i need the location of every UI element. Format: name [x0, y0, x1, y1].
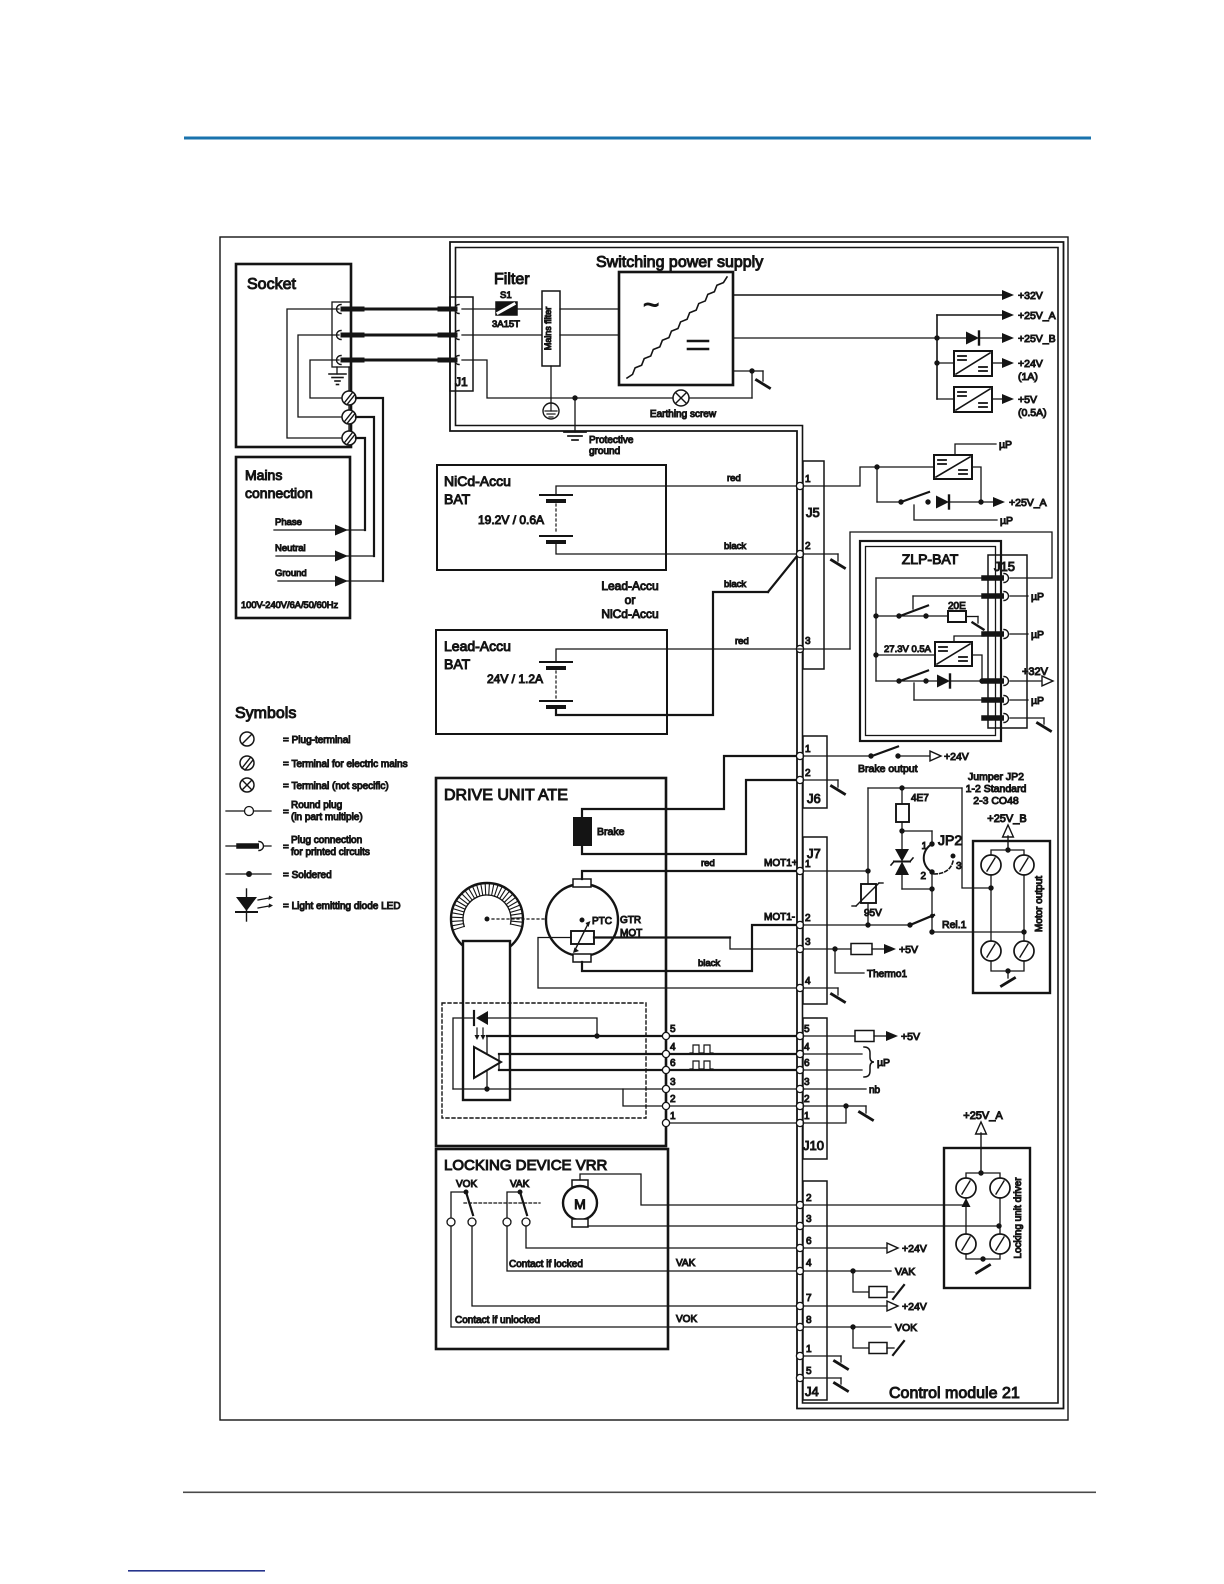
svg-text:1: 1	[805, 859, 811, 870]
J5 pin 1	[796, 482, 803, 489]
mains filter block	[542, 291, 560, 366]
20E chassis tick	[966, 617, 984, 630]
J15 pin3	[984, 630, 1009, 639]
wire terminal2 to neutral arrow	[356, 417, 374, 556]
locking driver terminal top-right	[990, 1178, 1010, 1198]
J4 pin4 VAK sense	[803, 1266, 915, 1278]
wire terminal3 to phase arrow	[356, 438, 365, 530]
svg-text:red: red	[735, 636, 749, 647]
svg-text:red: red	[701, 858, 715, 869]
wire contact if unlocked VOK to J4 pin8	[451, 1226, 797, 1327]
motor output terminal bottom-right	[1014, 941, 1034, 961]
photo amplifier	[474, 1047, 501, 1078]
label control module 21	[889, 1385, 1020, 1402]
LED emitter	[474, 1011, 488, 1040]
legend plug-terminal	[240, 732, 351, 746]
svg-text:6: 6	[670, 1058, 676, 1069]
wire J4 pin2 to locking driver	[803, 1198, 971, 1207]
svg-text:Contact if locked: Contact if locked	[509, 1259, 583, 1270]
wire drive row6 to J10 with pulses	[670, 1061, 797, 1070]
svg-text:VAK: VAK	[676, 1258, 696, 1269]
wire J5 pin1 to DC/DC	[803, 464, 934, 486]
wire locking motor to J4 pin3	[588, 1225, 797, 1227]
wire JP2 pin2 down to relay	[930, 872, 934, 932]
connector J5	[803, 461, 824, 669]
svg-text:(in part multiple): (in part multiple)	[291, 812, 363, 823]
locking driver bottom bracket with tick	[966, 1254, 1000, 1273]
varistor 95V	[852, 788, 883, 925]
svg-text:for printed circuits: for printed circuits	[291, 847, 370, 858]
svg-text:NiCd-Accu: NiCd-Accu	[601, 607, 658, 621]
J10 pin1 to pin2 tie	[803, 1106, 846, 1123]
wire row4 sensor	[499, 1054, 663, 1070]
wire socket row1 to mains terminal 3	[287, 309, 341, 438]
svg-text:2: 2	[806, 1193, 812, 1204]
connector J1	[440, 297, 473, 391]
output +25V_B with diode	[733, 332, 1056, 346]
svg-text:4: 4	[806, 1258, 812, 1269]
svg-text:3A15T: 3A15T	[492, 319, 520, 330]
J6 pin2 chassis tick	[803, 780, 845, 794]
svg-text:MOT1-: MOT1-	[764, 912, 795, 923]
wire DC/DC out to +25V_A node	[972, 467, 981, 502]
wire row6 sensor	[499, 1069, 663, 1071]
wire drive row4 to J10 with pulses	[670, 1045, 797, 1054]
J15 pin5 uP	[1010, 695, 1044, 707]
locking device VRR box	[436, 1149, 668, 1349]
svg-text:+25V_A: +25V_A	[963, 1110, 1003, 1122]
neutral label and arrow	[275, 543, 374, 561]
J10 pin2 chassis tick	[803, 1103, 873, 1120]
svg-text:M: M	[574, 1196, 586, 1212]
svg-text:= Plug-terminal: = Plug-terminal	[283, 735, 351, 746]
label lead-accu or nicd-accu	[601, 579, 658, 621]
switch VAK	[503, 1179, 530, 1226]
socket plug contacts (3x plug connection)	[337, 305, 363, 365]
wire J15 pin2 stub	[913, 596, 984, 609]
svg-text:4E7: 4E7	[911, 793, 929, 804]
output +32V	[733, 290, 1043, 302]
svg-text:µP: µP	[1031, 591, 1044, 603]
svg-text:J15: J15	[994, 559, 1015, 574]
svg-text:Contact if unlocked: Contact if unlocked	[455, 1315, 540, 1326]
J6 pin1	[796, 752, 803, 759]
DC/DC converter uP supply	[934, 455, 972, 479]
locking driver top bracket	[966, 1173, 1000, 1178]
svg-text:= Terminal (not specific): = Terminal (not specific)	[283, 781, 389, 792]
svg-text:Rel.1: Rel.1	[942, 919, 967, 931]
svg-text:J4: J4	[805, 1384, 819, 1399]
motor output bottom bracket with tick	[991, 961, 1024, 986]
J4 pin1	[796, 1352, 803, 1359]
legend plug connection	[226, 835, 370, 858]
J15 pin3 uP	[1010, 629, 1044, 641]
svg-text:~: ~	[643, 289, 659, 320]
wire row5 sensor	[487, 1036, 663, 1053]
J4 pin5 chassis tick	[803, 1378, 848, 1391]
wire VAK right to J4 pin6	[526, 1226, 797, 1248]
NiCd-Accu BAT box	[437, 465, 666, 570]
J7 pin4 chassis tick	[803, 988, 845, 1002]
svg-text:Brake output: Brake output	[858, 763, 918, 775]
legend terminal for electric mains	[240, 756, 408, 770]
svg-text:8: 8	[806, 1315, 812, 1326]
J5 pin 2	[796, 550, 803, 557]
svg-text:1: 1	[805, 744, 811, 755]
J6 pin2	[796, 776, 803, 783]
svg-text:Earthing screw: Earthing screw	[650, 409, 717, 420]
svg-text:4: 4	[804, 1042, 810, 1053]
motor output right column	[1021, 875, 1026, 941]
svg-text:Control module 21: Control module 21	[889, 1385, 1020, 1402]
svg-text:1: 1	[804, 1111, 810, 1122]
wire LED cathode to row3	[453, 1018, 474, 1089]
svg-text:Motor output: Motor output	[1034, 876, 1045, 932]
svg-text:3: 3	[956, 861, 962, 872]
svg-text:1: 1	[805, 474, 811, 485]
svg-text:PTC: PTC	[592, 916, 612, 927]
J10 pin2	[796, 1102, 803, 1109]
svg-text:95V: 95V	[864, 908, 882, 919]
svg-text:black: black	[698, 958, 720, 969]
J7 pin4	[796, 984, 803, 991]
wire row3 sensor	[453, 1088, 663, 1090]
svg-text:Neutral: Neutral	[275, 543, 306, 554]
diagram outer frame	[220, 237, 1068, 1420]
svg-text:µP: µP	[877, 1057, 890, 1069]
socket box	[236, 264, 351, 447]
svg-text:5: 5	[806, 1366, 812, 1377]
motor output top bracket	[991, 850, 1024, 855]
svg-text:Plug connection: Plug connection	[291, 835, 362, 846]
label switching power supply	[596, 254, 763, 271]
locking motor M	[563, 1180, 597, 1227]
wire amp out to row3	[484, 1071, 489, 1092]
resistor 20E	[948, 601, 966, 622]
footnote rule	[128, 1570, 265, 1572]
wire and +25V_A output	[950, 497, 1047, 509]
svg-text:+24V: +24V	[1018, 358, 1043, 370]
wire fuse to mains filter	[517, 308, 542, 310]
svg-text:ZLP-BAT: ZLP-BAT	[902, 551, 959, 567]
wire DC/DC to uP	[955, 439, 1012, 455]
wire locking motor to J4 pin2	[580, 1174, 797, 1205]
svg-text:Mains filter: Mains filter	[543, 307, 553, 351]
svg-text:Ground: Ground	[275, 568, 307, 579]
svg-text:NiCd-Accu: NiCd-Accu	[444, 473, 511, 489]
svg-text:black: black	[724, 541, 746, 552]
J7 pin1	[796, 867, 803, 874]
wire J1 pin2 to mains filter	[462, 334, 542, 336]
J5 pin2 chassis tick	[803, 554, 845, 568]
svg-text:Lead-Accu: Lead-Accu	[601, 579, 658, 593]
wires socket to connector J1	[362, 309, 445, 360]
svg-text:19.2V / 0.6A: 19.2V / 0.6A	[478, 513, 544, 527]
svg-text:µP: µP	[1031, 695, 1044, 707]
svg-text:+25V_B: +25V_B	[1018, 333, 1056, 345]
wire switch to uP sense	[914, 505, 1013, 527]
label filter	[494, 271, 530, 288]
Lead-Accu BAT box	[436, 630, 667, 734]
PTC thermistor	[571, 921, 594, 953]
J15 pin4 +32V output	[1010, 666, 1053, 686]
control module 21 boundary (double border)	[450, 242, 1064, 1409]
svg-text:1: 1	[670, 1111, 676, 1122]
svg-text:VOK: VOK	[895, 1322, 917, 1334]
J10 pin6	[796, 1066, 803, 1073]
motor GTR MOT	[546, 884, 642, 956]
J7 pin3	[796, 945, 803, 952]
svg-text:+32V: +32V	[1022, 666, 1049, 678]
junction protective ground	[572, 395, 577, 400]
svg-text:+25V_A: +25V_A	[1018, 310, 1056, 322]
thermo1 sense	[835, 949, 907, 980]
switch VOK	[447, 1179, 477, 1226]
svg-text:Symbols: Symbols	[235, 705, 296, 722]
wire J1 pin1 to fuse	[462, 308, 496, 310]
svg-text:Jumper JP2: Jumper JP2	[968, 771, 1024, 783]
J4 pin2	[796, 1201, 803, 1208]
VOK pullup resistor	[853, 1327, 904, 1355]
wire MOT1+ to varistor branch	[803, 868, 871, 873]
J4 pin4	[796, 1267, 803, 1274]
J15 pin6 chassis tick	[1010, 718, 1051, 731]
coupling dotted line	[492, 918, 576, 920]
svg-text:J6: J6	[807, 791, 821, 806]
svg-text:Thermo1: Thermo1	[867, 969, 907, 980]
legend round plug	[226, 800, 363, 823]
junction 4E7 TVS	[899, 828, 904, 833]
svg-text:5: 5	[804, 1024, 810, 1035]
svg-text:VOK: VOK	[456, 1179, 477, 1190]
motor output terminal top-right	[1014, 855, 1034, 875]
wire contact if locked VAK to J4 pin4	[507, 1226, 797, 1271]
wire MOT1- row	[803, 922, 913, 927]
svg-text:+5V: +5V	[899, 944, 918, 956]
J15 pin2	[984, 592, 1009, 601]
svg-text:= Soldered: = Soldered	[283, 870, 332, 881]
svg-text:or: or	[625, 593, 636, 607]
legend soldered	[226, 870, 332, 881]
J4 pin8 VOK sense	[803, 1322, 917, 1334]
wire JP2 rail into box	[973, 885, 994, 890]
wire drive row1 to J10	[670, 1122, 797, 1124]
svg-text:GTR: GTR	[620, 915, 641, 926]
svg-text:Protective: Protective	[589, 435, 634, 446]
svg-text:100V-240V/6A/50/60Hz: 100V-240V/6A/50/60Hz	[241, 600, 339, 610]
motor terminal top	[573, 879, 591, 887]
wire Lead plus to J5 pin3 (red)	[556, 636, 797, 662]
J7 pin3 +5V resistor	[803, 944, 918, 957]
connector J7	[803, 837, 827, 1004]
J4 pin8	[796, 1323, 803, 1330]
svg-text:Brake: Brake	[597, 826, 625, 838]
diode +25V_A	[936, 496, 949, 509]
svg-text:2: 2	[670, 1094, 676, 1105]
wire PTC to J7 pin3	[594, 937, 797, 949]
+25V_A feed locking driver	[963, 1110, 1003, 1176]
svg-text:nb: nb	[869, 1085, 881, 1096]
wire terminal1 to ground arrow	[356, 398, 383, 581]
drive unit connector pins	[662, 1024, 676, 1127]
J4 pin6 +24V	[803, 1243, 927, 1255]
wire VOK right to J4 pin7	[472, 1226, 797, 1306]
ZLP switch 2 and diode to +32V	[876, 671, 985, 688]
motor output terminal top-left	[981, 855, 1001, 875]
legend LED	[236, 889, 401, 921]
J4 pin1 chassis tick	[803, 1356, 848, 1369]
svg-text:= Terminal for electric mains: = Terminal for electric mains	[283, 759, 408, 770]
wire socket row2 to mains terminal 2	[298, 335, 341, 417]
svg-text:µP: µP	[1000, 515, 1013, 527]
DC/DC converter +24V	[934, 351, 1043, 383]
svg-text:3: 3	[804, 1077, 810, 1088]
svg-text:=: =	[283, 807, 289, 818]
svg-text:red: red	[727, 473, 741, 484]
svg-text:Switching power supply: Switching power supply	[596, 254, 763, 271]
wire brake to J6 pin1	[582, 756, 797, 817]
svg-text:+25V_B: +25V_B	[987, 813, 1026, 825]
svg-text:3: 3	[805, 636, 811, 647]
locking driver terminal bottom-right	[990, 1234, 1010, 1254]
J10 pins 4,6 to uP brace	[803, 1047, 890, 1077]
drive unit ATE box	[436, 778, 666, 1146]
svg-text:+5V: +5V	[901, 1031, 920, 1043]
svg-text:1: 1	[806, 1344, 812, 1355]
ZLP internal bus	[873, 578, 984, 681]
ZLP charger 27.3V 0.5A	[876, 642, 972, 666]
wire LED anode to row5	[488, 1018, 600, 1039]
J7 pin2	[796, 921, 803, 928]
svg-text:BAT: BAT	[444, 491, 471, 507]
svg-text:µP: µP	[999, 439, 1012, 451]
motor output box	[973, 841, 1050, 993]
svg-text:ground: ground	[589, 446, 620, 457]
wire mains filter to PSU line1	[560, 308, 619, 310]
wire charger out	[972, 655, 982, 681]
J10 pin3	[796, 1085, 803, 1092]
wire top rail to motor output	[868, 785, 973, 888]
PSU chassis tie	[733, 368, 770, 398]
svg-text:connection: connection	[245, 485, 313, 501]
page bottom rule	[183, 1492, 1096, 1494]
sensor fork housing	[463, 941, 510, 1100]
svg-text:2: 2	[805, 768, 811, 779]
connector J4	[803, 1181, 827, 1400]
locking driver right column	[999, 1198, 1001, 1234]
J4 pin3	[796, 1222, 803, 1229]
wire drive row5 to J10	[670, 1035, 797, 1037]
svg-text:S1: S1	[500, 290, 512, 301]
svg-text:Filter: Filter	[494, 271, 530, 288]
svg-text:24V / 1.2A: 24V / 1.2A	[487, 672, 543, 686]
DC/DC converter +5V	[937, 387, 1047, 419]
svg-text:Phase: Phase	[275, 517, 302, 528]
socket earth ground symbol	[329, 367, 346, 385]
svg-text:JP2: JP2	[938, 832, 962, 848]
connector J6	[803, 736, 827, 808]
wire TVS to JP2 pin2	[902, 886, 935, 891]
svg-text:6: 6	[804, 1058, 810, 1069]
ZLP-BAT box (double border)	[860, 541, 1001, 741]
wire drive row3 to J10	[670, 1088, 797, 1090]
svg-text:2-3 CO48: 2-3 CO48	[973, 795, 1019, 807]
svg-text:2: 2	[805, 541, 811, 552]
wire brake to J6 pin2	[582, 780, 797, 854]
Lead battery symbol	[540, 662, 572, 707]
svg-text:3: 3	[805, 937, 811, 948]
output +25V_A	[937, 310, 1056, 322]
svg-text:2: 2	[805, 913, 811, 924]
J10 pin5	[796, 1032, 803, 1039]
svg-text:= Light emitting diode LED: = Light emitting diode LED	[283, 901, 401, 912]
ground label and arrow	[275, 568, 383, 586]
svg-text:Mains: Mains	[245, 467, 282, 483]
svg-text:2: 2	[804, 1094, 810, 1105]
svg-text:J1: J1	[455, 375, 468, 389]
svg-text:J5: J5	[806, 505, 820, 520]
svg-text:4: 4	[805, 976, 811, 987]
svg-text:1: 1	[921, 841, 927, 852]
locking driver terminal top-left	[956, 1178, 976, 1198]
page header rule	[184, 137, 1091, 140]
tacho encoder wheel	[451, 883, 523, 955]
svg-text:3: 3	[806, 1214, 812, 1225]
svg-text:LOCKING DEVICE VRR: LOCKING DEVICE VRR	[444, 1157, 608, 1174]
VAK pullup resistor	[853, 1271, 904, 1299]
wire socket row3 to mains terminal 1	[310, 360, 341, 398]
svg-text:+5V: +5V	[1018, 394, 1037, 406]
TVS suppressor diode	[891, 849, 913, 889]
locking driver left column	[965, 1198, 967, 1234]
J15 pin5	[984, 696, 1009, 705]
wire J15 pin5 stub	[914, 683, 984, 700]
motor output terminal bottom-left	[981, 941, 1001, 961]
svg-text:BAT: BAT	[444, 656, 471, 672]
switching power supply unit (AC/DC)	[619, 272, 733, 385]
switch coupling dotted	[464, 1202, 540, 1204]
sensor dashed box	[442, 1003, 646, 1118]
relay contact Rel.1	[910, 915, 967, 935]
label jumper JP2 settings	[966, 771, 1027, 807]
connector J15	[988, 555, 1027, 728]
wire motor plus MOT1+ (red)	[582, 858, 798, 879]
svg-text:=: =	[283, 842, 289, 853]
svg-text:(0.5A): (0.5A)	[1018, 407, 1047, 419]
wire Rel.1 to motor output	[932, 931, 1024, 933]
protective ground symbol	[564, 398, 634, 457]
motor terminal bottom	[573, 954, 591, 962]
svg-text:2: 2	[920, 871, 926, 882]
wire J4 pin3 to locking driver	[803, 1223, 1002, 1228]
connector J10	[803, 1018, 827, 1159]
J15 pin1	[984, 574, 1009, 583]
protective earth terminal symbol	[543, 366, 559, 419]
svg-text:3: 3	[670, 1077, 676, 1088]
svg-text:4: 4	[670, 1042, 676, 1053]
svg-text:VOK: VOK	[676, 1314, 697, 1325]
wire charger to J15 pin3	[954, 636, 984, 642]
svg-text:Locking unit driver: Locking unit driver	[1013, 1177, 1024, 1259]
wire J5 pin3 loop to J15 pin1	[797, 532, 1052, 649]
wire drive row2 to J10	[670, 1105, 797, 1107]
ZLP switch 1	[876, 606, 948, 619]
jumper JP2	[902, 831, 962, 882]
wire PTC to J7 pin4	[538, 938, 797, 989]
earthing screw terminal	[650, 390, 717, 420]
J10 pin3 nb	[803, 1085, 881, 1096]
svg-text:black: black	[724, 579, 746, 590]
